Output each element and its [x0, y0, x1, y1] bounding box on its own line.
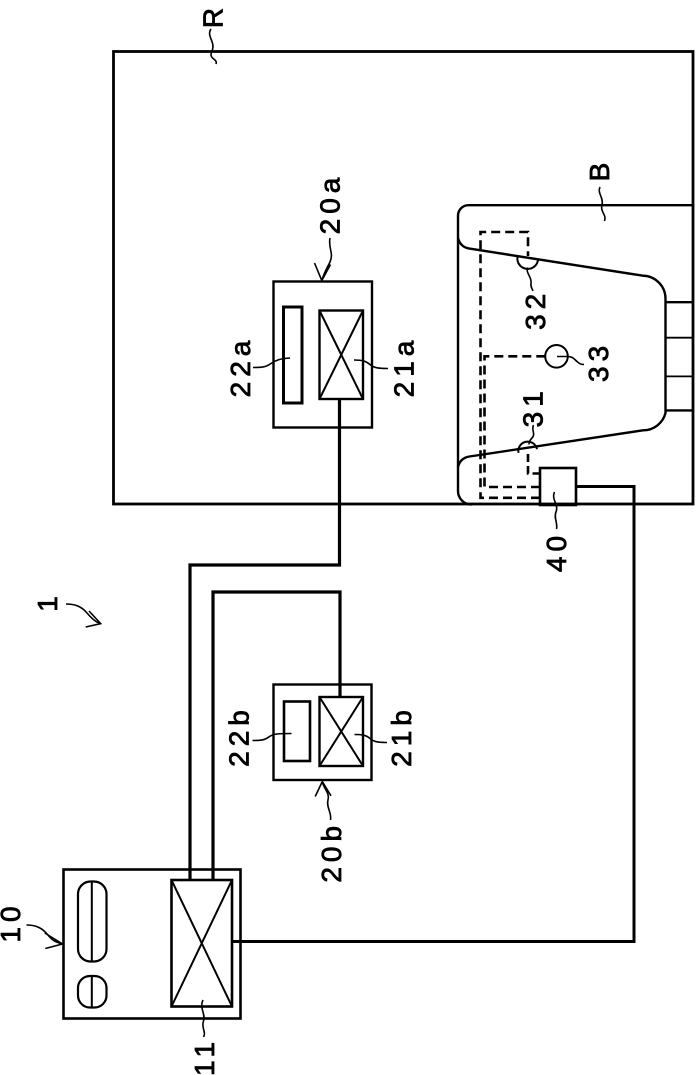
svg-text:22b: 22b [224, 705, 255, 767]
svg-text:1: 1 [32, 591, 63, 612]
svg-text:10: 10 [0, 901, 26, 942]
svg-text:20b: 20b [316, 821, 347, 883]
svg-text:11: 11 [189, 1037, 220, 1075]
bathtub step line 3 [666, 375, 694, 377]
leader 31 [529, 425, 534, 445]
svg-text:21a: 21a [389, 336, 420, 398]
nozzle 32 [517, 257, 538, 269]
dashed pipe to sensor 33 [485, 356, 545, 487]
heat exchanger 21b [320, 697, 364, 766]
refrigerant pipe P1 (20a to outdoor unit 10) [190, 399, 340, 879]
heat exchanger 11 [172, 880, 233, 1007]
bathtub B rim outline [458, 205, 694, 504]
leader 32 [527, 268, 533, 292]
refrigerant pipe P2 (20b to outdoor unit 10) [213, 592, 340, 879]
bathtub step line 4 [666, 409, 694, 411]
svg-text:31: 31 [518, 386, 549, 427]
unit 20b box [274, 685, 372, 781]
arrow 20a [315, 238, 332, 281]
heat exchanger 21a [320, 311, 364, 400]
svg-text:40: 40 [541, 531, 572, 572]
leader 22b [253, 734, 292, 741]
svg-text:32: 32 [520, 289, 551, 330]
fan 22a [284, 307, 303, 403]
arrow 1 [66, 604, 101, 627]
leader 22a [253, 358, 290, 368]
leader R [210, 29, 217, 64]
leader 21b [355, 735, 388, 743]
bathtub B basin outline [458, 238, 666, 467]
svg-text:B: B [584, 158, 615, 182]
unit 20a box [274, 282, 373, 428]
bathtub step line 1 [666, 301, 694, 303]
fan 22b [284, 702, 310, 762]
leader B [599, 187, 605, 221]
arrow 20b [315, 782, 331, 821]
nozzle 31 [518, 442, 537, 453]
outdoor unit 10 box [64, 870, 241, 1019]
leader 33 [557, 357, 584, 365]
arrow 10 [27, 925, 63, 949]
room R outline [114, 52, 694, 505]
svg-text:21b: 21b [386, 705, 417, 767]
svg-text:22a: 22a [225, 336, 256, 398]
leader 11 [202, 1000, 205, 1037]
dashed suction pipe from nozzle 31 [528, 454, 539, 474]
bathtub step line 2 [666, 337, 694, 339]
sensor 33 [545, 345, 568, 368]
leader 21a [354, 360, 388, 369]
compressor pill [78, 882, 107, 962]
svg-text:R: R [198, 3, 229, 28]
leader 40 [554, 492, 557, 529]
dashed discharge pipe to nozzle 32 [481, 232, 541, 498]
accumulator pill [78, 976, 107, 1008]
svg-text:33: 33 [583, 341, 614, 382]
svg-text:20a: 20a [315, 173, 346, 235]
water pipe P3 (outdoor unit 10 to adapter 40) [233, 487, 634, 942]
circulation adapter 40 [540, 468, 576, 505]
